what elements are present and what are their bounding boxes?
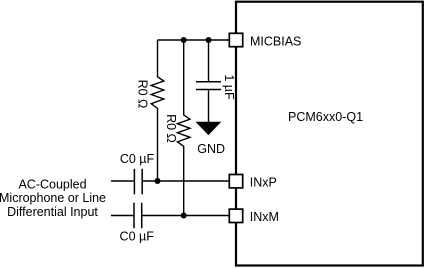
- svg-text:INxP: INxP: [250, 175, 277, 189]
- svg-text:R0 Ω: R0 Ω: [136, 80, 150, 109]
- junction dot node MICBIAS-C3: [206, 37, 212, 43]
- resistor R2 (R0 ohm, right leg) with wires: [177, 40, 190, 216]
- capacitor C3 (1 µF) top wire: [208, 40, 210, 81]
- ground symbol: [196, 122, 222, 136]
- svg-text:INxM: INxM: [250, 210, 279, 224]
- pin MICBIAS terminal square: [229, 33, 242, 46]
- svg-text:C0 µF: C0 µF: [120, 152, 155, 166]
- wire INxP row left stub: [111, 180, 134, 182]
- svg-text:GND: GND: [197, 142, 225, 156]
- wire INxP row to pin: [143, 180, 230, 182]
- svg-text:Microphone or Line: Microphone or Line: [0, 191, 106, 205]
- svg-text:AC-Coupled: AC-Coupled: [18, 178, 86, 192]
- junction dot node INxP-R1: [155, 178, 161, 184]
- wire MICBIAS horizontal bus: [158, 39, 231, 41]
- svg-text:R0 Ω: R0 Ω: [164, 114, 178, 143]
- pin INxM terminal square: [229, 209, 242, 222]
- wire INxM row to pin: [142, 215, 230, 217]
- svg-text:MICBIAS: MICBIAS: [250, 35, 301, 49]
- svg-text:1 µF: 1 µF: [222, 74, 236, 100]
- svg-text:PCM6xx0-Q1: PCM6xx0-Q1: [288, 110, 363, 124]
- capacitor C3 bottom wire: [208, 90, 210, 122]
- svg-text:Differential Input: Differential Input: [7, 205, 98, 219]
- capacitor C1 (C0 µF) plates: [134, 169, 142, 195]
- resistor R1 (R0 ohm, left leg) with wires: [151, 40, 164, 181]
- junction dot node INxM-R2: [181, 213, 187, 219]
- pin INxP terminal square: [229, 175, 242, 188]
- svg-text:C0 µF: C0 µF: [120, 230, 155, 244]
- junction dot node MICBIAS-R2: [181, 37, 187, 43]
- capacitor C3 plates: [196, 82, 221, 90]
- wire INxM row left stub: [111, 215, 133, 217]
- capacitor C2 (C0 µF) plates: [134, 203, 142, 229]
- op-amp U1 PCM6xx0-Q1 IC body: [236, 2, 423, 266]
